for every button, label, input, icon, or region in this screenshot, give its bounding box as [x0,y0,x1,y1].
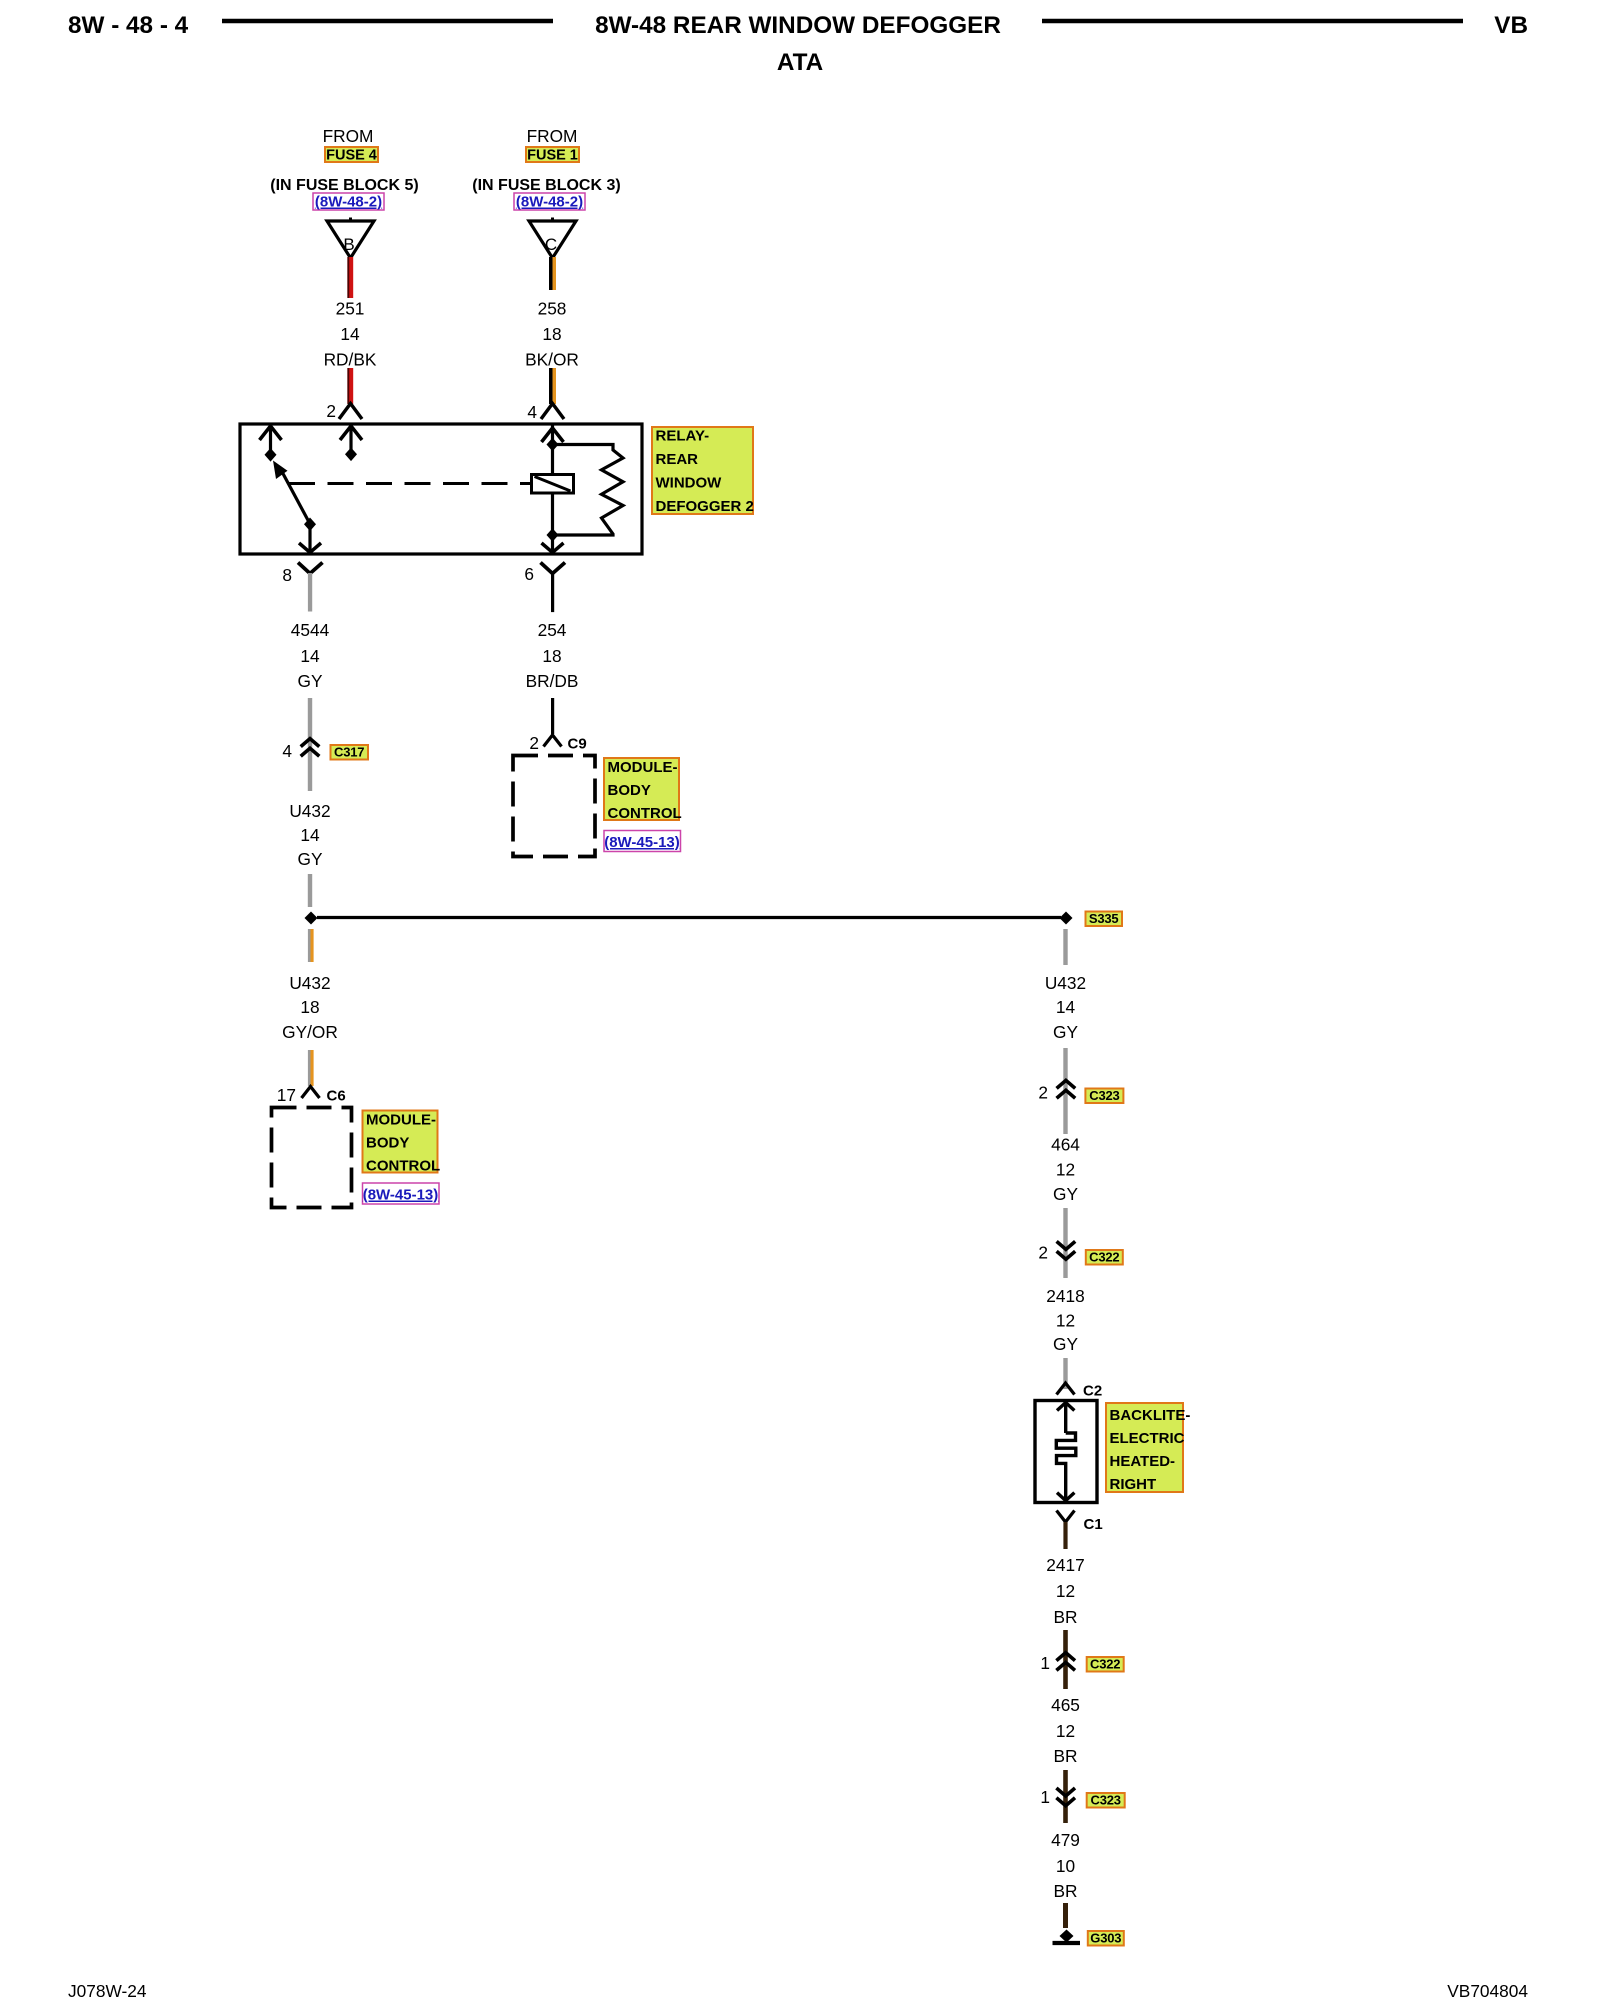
page link (8W-45-13) left [363,1183,440,1204]
relay suppression resistor [553,445,624,536]
svg-text:(8W-48-2): (8W-48-2) [315,194,382,211]
wire 254 BR/DB segment below pin 6 [551,611,554,613]
svg-text:4: 4 [527,402,537,422]
fuse link FUSE 1 [526,147,579,164]
in-line connector C322 chevrons up (pin 1) [1056,1653,1075,1671]
wire BR segment above C323 [1063,1770,1068,1823]
svg-text:BACKLITE-: BACKLITE- [1110,1407,1191,1424]
svg-text:C323: C323 [1089,1088,1119,1103]
svg-text:RELAY-: RELAY- [656,428,710,445]
svg-text:14: 14 [340,324,360,344]
svg-text:254: 254 [538,620,567,640]
svg-text:8: 8 [282,565,292,585]
svg-text:(8W-45-13): (8W-45-13) [363,1187,439,1204]
svg-text:VB704804: VB704804 [1447,1981,1528,2000]
wire 4544 GY segment [308,698,312,791]
connector fork C2 [1057,1383,1075,1395]
wire splice horizontal to S335 [317,916,1061,919]
svg-text:GY: GY [298,671,323,691]
splice junction diamond [305,912,318,925]
svg-text:464: 464 [1051,1135,1080,1155]
svg-text:DEFOGGER 2: DEFOGGER 2 [656,498,754,515]
splice S335 diamond [1060,912,1073,925]
svg-text:U432: U432 [289,973,330,993]
relay pin 87a terminal arrow [260,426,282,462]
wire GY segment above C322 [1063,1208,1067,1278]
svg-text:12: 12 [1056,1721,1075,1741]
connector fork at relay pin 4 [541,404,564,420]
connector tag C323 lower [1087,1793,1125,1808]
wire 254 BR/DB segment 2 [551,698,554,734]
page link (8W-45-13) right [604,831,681,852]
svg-text:258: 258 [538,299,567,319]
svg-text:18: 18 [542,646,561,666]
connector fork at BCM pin 17 C6 [302,1087,320,1099]
relay label box [652,427,754,515]
svg-text:(IN FUSE BLOCK 3): (IN FUSE BLOCK 3) [472,177,620,194]
module body control dashed box (C9) [513,756,595,857]
connector fork at relay pin 6 [541,563,566,613]
svg-text:251: 251 [336,299,365,319]
svg-text:RIGHT: RIGHT [1110,1476,1157,1493]
relay pin 2 terminal arrow [340,426,362,462]
connector tag C322 [1086,1250,1123,1265]
svg-text:B: B [343,235,354,254]
off-page connector triangle C [529,218,576,259]
backlite grid element [1056,1402,1076,1501]
splice tag S335 [1086,911,1123,926]
connector tag C323 [1085,1088,1123,1103]
module body control label (left) [363,1111,441,1175]
svg-text:14: 14 [300,825,320,845]
page link (8W-48-2) left [313,193,384,211]
backlite label box [1106,1403,1190,1493]
wire U432 GY/OR segment 2 [308,1050,314,1086]
svg-text:C9: C9 [568,736,587,753]
wire 251 RD/BK segment 1 [347,257,353,298]
svg-text:C: C [545,235,557,254]
off-page connector triangle B [327,218,374,259]
svg-text:GY: GY [1053,1184,1078,1204]
svg-text:C317: C317 [334,745,364,760]
svg-text:1: 1 [1040,1787,1050,1807]
relay switch blade [273,461,310,524]
backlite electric heated right box [1035,1401,1097,1503]
svg-text:BR: BR [1053,1607,1077,1627]
svg-text:2: 2 [1038,1243,1048,1263]
svg-text:CONTROL: CONTROL [608,805,682,822]
relay coil [532,475,574,494]
svg-text:14: 14 [300,646,320,666]
svg-text:12: 12 [1056,1160,1075,1180]
svg-text:14: 14 [1056,997,1076,1017]
svg-text:8W-48 REAR WINDOW DEFOGGER: 8W-48 REAR WINDOW DEFOGGER [595,12,1001,39]
svg-text:BR: BR [1053,1746,1077,1766]
svg-text:479: 479 [1051,1830,1080,1850]
svg-text:GY: GY [298,849,323,869]
connector tag C317 [331,745,369,760]
svg-text:(8W-48-2): (8W-48-2) [516,194,583,211]
svg-text:J078W-24: J078W-24 [68,1981,147,2000]
relay pin 4 terminal arrow with coil shaft [542,426,564,553]
svg-text:VB: VB [1494,12,1528,39]
svg-text:BK/OR: BK/OR [525,350,579,370]
svg-text:8W - 48 - 4: 8W - 48 - 4 [68,12,189,39]
svg-text:BODY: BODY [608,782,651,799]
svg-text:C322: C322 [1090,1657,1120,1672]
svg-text:RD/BK: RD/BK [324,350,377,370]
module body control dashed box (C6) [272,1108,352,1208]
wire 258 BK/OR segment 1 [549,257,556,290]
svg-text:(IN FUSE BLOCK 5): (IN FUSE BLOCK 5) [270,177,418,194]
svg-text:6: 6 [524,564,534,584]
ground G303 symbol [1053,1930,1081,1944]
svg-text:G303: G303 [1090,1931,1121,1946]
fuse link FUSE 4 [325,147,378,164]
svg-text:FROM: FROM [527,126,578,146]
wire BR segment above C322 [1063,1630,1068,1689]
svg-text:BR: BR [1053,1881,1077,1901]
svg-text:GY: GY [1053,1334,1078,1354]
in-line connector C323 chevrons up [1057,1080,1076,1098]
in-line connector C317 chevrons [301,739,320,757]
svg-text:2: 2 [326,401,336,421]
svg-text:465: 465 [1051,1695,1080,1715]
svg-text:FROM: FROM [323,126,374,146]
relay pin 8 terminal arrow [299,518,321,553]
svg-text:REAR: REAR [656,451,699,468]
module body control label (C9) [604,758,682,822]
svg-text:4544: 4544 [291,620,330,640]
svg-text:C2: C2 [1083,1383,1102,1400]
in-line connector C322 chevrons down [1057,1241,1076,1259]
svg-text:S335: S335 [1089,911,1119,926]
svg-text:1: 1 [1040,1653,1050,1673]
svg-text:FUSE 4: FUSE 4 [326,148,377,164]
svg-text:BODY: BODY [366,1135,409,1152]
svg-text:MODULE-: MODULE- [366,1112,436,1129]
svg-text:CONTROL: CONTROL [366,1158,440,1175]
svg-text:10: 10 [1056,1856,1075,1876]
svg-text:4: 4 [282,741,292,761]
wire 258 BK/OR segment 2 [549,368,556,404]
connector fork C1 [1057,1511,1075,1550]
svg-text:C1: C1 [1084,1516,1103,1533]
svg-text:C6: C6 [327,1088,346,1105]
svg-text:ELECTRIC: ELECTRIC [1110,1430,1185,1447]
wire U432 GY/OR segment 1 [308,929,314,962]
svg-text:U432: U432 [1045,973,1086,993]
svg-text:U432: U432 [289,801,330,821]
svg-text:C322: C322 [1089,1250,1119,1265]
connector fork at relay pin 8 [298,563,323,612]
svg-text:(8W-45-13): (8W-45-13) [604,834,680,851]
connector fork at BCM pin 2 C9 [544,735,562,747]
connector fork at relay pin 2 [339,404,362,420]
svg-text:ATA: ATA [777,49,823,76]
connector tag C322 lower [1087,1657,1124,1672]
wire U432 GY right segment [1063,929,1067,965]
svg-text:FUSE 1: FUSE 1 [527,148,578,164]
relay coil control dashed line [289,482,531,485]
in-line connector C323 chevrons down (pin 1) [1056,1788,1075,1806]
svg-text:HEATED-: HEATED- [1110,1453,1176,1470]
svg-text:2: 2 [529,733,539,753]
svg-text:18: 18 [300,997,319,1017]
svg-text:2: 2 [1038,1083,1048,1103]
page link (8W-48-2) right [514,193,585,211]
svg-text:18: 18 [542,324,561,344]
svg-text:2418: 2418 [1046,1286,1084,1306]
svg-text:C323: C323 [1091,1793,1121,1808]
wire BR segment to ground [1063,1903,1068,1928]
svg-text:12: 12 [1056,1311,1075,1331]
svg-text:MODULE-: MODULE- [608,759,678,776]
wire U432 GY segment above splice [308,874,312,907]
svg-text:BR/DB: BR/DB [526,671,579,691]
relay RELAY-REAR WINDOW DEFOGGER 2 box [240,424,642,554]
svg-text:17: 17 [277,1085,296,1105]
wire GY segment above C2 [1063,1358,1067,1389]
svg-text:GY: GY [1053,1022,1078,1042]
wire GY segment above C323 [1063,1048,1067,1134]
ground tag G303 [1088,1931,1124,1946]
svg-text:GY/OR: GY/OR [282,1022,338,1042]
wire 251 RD/BK segment 2 [347,368,353,404]
svg-text:2417: 2417 [1046,1555,1084,1575]
svg-text:12: 12 [1056,1581,1075,1601]
svg-text:WINDOW: WINDOW [656,475,723,492]
